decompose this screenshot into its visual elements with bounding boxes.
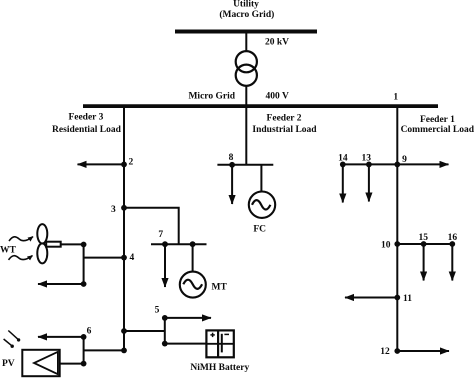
load arrow near WT <box>38 283 84 285</box>
wire: feeder to node 5 stem <box>124 330 165 332</box>
wind turbine WT <box>37 224 60 263</box>
wire: node 10 lateral <box>397 243 452 245</box>
photovoltaic PV <box>22 350 59 376</box>
node 12 <box>380 347 400 357</box>
fuel cell FC <box>249 192 275 218</box>
wire: utility bus to transformer <box>245 33 247 51</box>
junction <box>121 348 127 354</box>
svg-text:4: 4 <box>130 253 135 263</box>
node 9 <box>394 155 407 167</box>
wire: stem to battery <box>165 343 207 345</box>
bus: micro grid 400 V bus <box>83 104 438 108</box>
svg-text:2: 2 <box>129 158 134 168</box>
junction: MT tap <box>190 241 196 247</box>
wire: node 5 stem <box>164 318 166 344</box>
svg-text:Utility: Utility <box>233 0 259 10</box>
wire: feeder 2 stem <box>245 107 247 165</box>
battery NiMH <box>206 330 233 357</box>
svg-text:WT: WT <box>0 246 17 256</box>
wire: node 3 branch to MT/load bar <box>124 208 179 244</box>
svg-text:15: 15 <box>418 233 428 243</box>
svg-text:(Macro Grid): (Macro Grid) <box>219 9 274 20</box>
load arrow at node 7 <box>164 244 166 287</box>
svg-text:PV: PV <box>2 359 15 369</box>
wire: feeder 3 main line <box>123 107 125 351</box>
svg-text:11: 11 <box>403 294 412 304</box>
label: Utility (Macro Grid) <box>219 0 274 20</box>
junction <box>81 361 87 367</box>
arrow at node 12 <box>397 350 449 352</box>
svg-text:3: 3 <box>111 205 116 215</box>
svg-text:9: 9 <box>402 155 407 165</box>
svg-text:400 V: 400 V <box>266 91 289 101</box>
node 15 <box>418 233 428 247</box>
svg-text:16: 16 <box>448 233 458 243</box>
svg-text:14: 14 <box>338 154 348 164</box>
wire: node 6 stem <box>83 337 85 364</box>
load arrow at node 2 <box>78 163 125 165</box>
load arrow at node 6 <box>38 336 84 338</box>
svg-text:12: 12 <box>380 347 390 357</box>
svg-text:6: 6 <box>87 326 92 336</box>
wire: WT to riser <box>61 243 84 245</box>
svg-text:Feeder 1: Feeder 1 <box>420 115 455 125</box>
label: Feeder 2 Industrial Load <box>252 114 317 136</box>
node 6 <box>81 326 92 339</box>
label: Feeder 1 Commercial Load <box>401 115 474 135</box>
node 10 <box>381 241 400 251</box>
arrow at node 5 <box>165 317 211 319</box>
svg-text:7: 7 <box>158 230 163 240</box>
wire: node 4 branch to WT <box>84 257 124 259</box>
wire: drop to MT <box>192 244 194 271</box>
node 5 <box>155 306 168 321</box>
node 4 <box>121 253 134 263</box>
sun ray 1 <box>8 331 20 342</box>
node 2 <box>121 158 133 168</box>
junction <box>162 341 168 347</box>
wire: WT riser <box>83 245 85 285</box>
node 3 <box>111 205 127 215</box>
node 8 <box>229 153 235 168</box>
wire: PV to stem <box>60 363 84 365</box>
label: Feeder 3 Residential Load <box>52 112 122 134</box>
node 13 <box>361 154 371 168</box>
svg-text:Residential Load: Residential Load <box>52 125 122 135</box>
wire: stem to feeder bottom <box>84 349 124 351</box>
wire: transformer to micro grid bus <box>245 86 247 105</box>
node 11 <box>394 294 412 304</box>
wire: node 9 lateral with load arrow <box>343 163 449 165</box>
node 7 <box>158 230 168 247</box>
junction <box>121 328 127 334</box>
svg-text:FC: FC <box>253 225 266 235</box>
node 14 <box>338 154 348 168</box>
svg-text:13: 13 <box>361 154 371 164</box>
svg-text:Feeder 2: Feeder 2 <box>267 114 302 124</box>
sun ray 2 <box>4 339 14 348</box>
wire: drop to FC <box>260 165 262 192</box>
junction <box>81 281 87 287</box>
svg-text:5: 5 <box>155 306 160 316</box>
load arrow at node 14 <box>342 164 344 202</box>
svg-text:NiMH Battery: NiMH Battery <box>190 363 249 373</box>
microturbine MT <box>180 272 206 298</box>
load arrow at node 16 <box>451 244 453 281</box>
load arrow at node 13 <box>368 164 370 201</box>
wind arrow upper <box>9 237 33 241</box>
load arrow at node 11 <box>345 297 397 299</box>
wind arrow lower <box>9 256 33 260</box>
load arrow at node 8 <box>231 165 233 204</box>
svg-text:MT: MT <box>212 283 228 293</box>
load arrow at node 15 <box>423 244 425 281</box>
svg-text:20 kV: 20 kV <box>265 37 289 47</box>
node 16 <box>448 233 458 247</box>
bus: utility 20 kV bus <box>175 30 317 34</box>
svg-text:Commercial Load: Commercial Load <box>401 125 474 135</box>
svg-text:8: 8 <box>229 153 234 163</box>
transformer T1 <box>236 51 257 86</box>
svg-text:Industrial Load: Industrial Load <box>252 125 317 135</box>
wire: feeder 1 main line <box>396 107 398 351</box>
svg-text:Feeder 3: Feeder 3 <box>68 112 103 122</box>
junction <box>81 242 87 248</box>
svg-text:Micro Grid: Micro Grid <box>188 91 235 101</box>
wire: bar at node 8 <box>217 164 273 166</box>
svg-text:1: 1 <box>393 93 398 103</box>
wire: bar at node 7 <box>151 243 207 245</box>
svg-text:10: 10 <box>381 241 391 251</box>
